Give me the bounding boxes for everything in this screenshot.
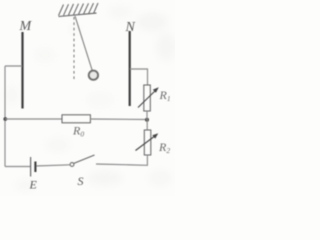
- wire R2 to bottom rail: [96, 155, 147, 165]
- switch blade: [74, 155, 95, 164]
- plate M: [21, 32, 23, 109]
- rheostat R1 arrow: [138, 87, 159, 107]
- node at left rail: [3, 117, 7, 121]
- junction node: [145, 118, 149, 122]
- wire junction to R2: [146, 120, 148, 130]
- rheostat R2 arrow: [136, 133, 159, 150]
- paper noise: [5, 6, 176, 191]
- ceiling: [59, 13, 97, 16]
- plate N: [129, 31, 131, 106]
- rheostat R2 body: [144, 130, 151, 155]
- wire battery to switch: [35, 165, 70, 166]
- battery E long plate: [30, 157, 32, 177]
- wire from plate N to right rail: [130, 69, 148, 85]
- pendulum ball: [89, 71, 98, 80]
- ceiling hatching: [59, 3, 99, 16]
- pendulum string: [75, 16, 92, 70]
- rheostat R1 body: [144, 85, 151, 111]
- wire from plate M to left rail: [5, 65, 22, 67]
- switch contact: [70, 163, 74, 167]
- battery E short plate: [34, 162, 36, 173]
- equilibrium dashed line: [73, 17, 75, 79]
- middle wire right of R0: [90, 118, 147, 121]
- wire left rail to battery: [5, 166, 30, 168]
- svg-text:E: E: [29, 178, 38, 192]
- middle wire left of R0: [5, 118, 62, 120]
- svg-text:S: S: [78, 174, 84, 188]
- svg-text:M: M: [19, 19, 33, 34]
- wire R1 to junction: [146, 111, 148, 120]
- resistor R0: [62, 115, 90, 123]
- left rail wire: [4, 66, 6, 167]
